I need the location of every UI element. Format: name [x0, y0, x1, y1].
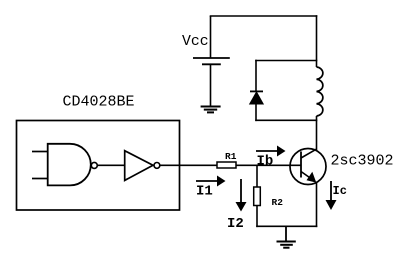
ground at battery — [201, 107, 221, 113]
IC block box CD4028BE — [17, 121, 180, 211]
ground at emitter — [277, 226, 296, 247]
wire parallel bottom rail — [255, 119, 317, 121]
svg-text:Ic: Ic — [333, 184, 347, 198]
transistor Q1 circle — [290, 149, 326, 185]
wire NAND to inverter — [97, 164, 124, 166]
svg-text:R2: R2 — [272, 197, 284, 208]
inductor L1 relay coil — [317, 67, 323, 116]
svg-text:Vcc: Vcc — [182, 34, 209, 50]
svg-text:Ib: Ib — [257, 153, 274, 169]
resistor R2 body — [254, 187, 261, 206]
transistor base bar — [300, 152, 302, 178]
battery V1 short plate — [202, 63, 221, 65]
wire diode branch upper — [255, 60, 257, 92]
inverter U1B triangle — [125, 151, 153, 181]
wire top rail — [210, 15, 318, 17]
wire battery to ground — [210, 64, 212, 106]
current arrow I2 — [236, 179, 247, 212]
resistor R1 body — [217, 162, 236, 168]
svg-text:I1: I1 — [196, 184, 213, 200]
current arrow Ic — [326, 181, 337, 210]
NAND gate output bubble — [91, 162, 97, 168]
svg-text:I2: I2 — [227, 216, 244, 232]
svg-text:R1: R1 — [225, 151, 237, 162]
diode D1 cathode bar — [250, 90, 263, 92]
battery V1 long plate — [193, 57, 230, 59]
wire diode branch lower — [255, 104, 257, 121]
transistor emitter stroke with arrow — [301, 172, 316, 183]
wire Vcc top — [210, 16, 212, 58]
transistor collector stroke — [301, 149, 316, 158]
svg-text:2sc3902: 2sc3902 — [331, 152, 394, 169]
wire top rail to coil — [316, 15, 318, 67]
wire collector up to coil/diode rail — [316, 121, 318, 151]
diode D1 triangle — [250, 92, 264, 104]
current arrow I1 — [196, 176, 226, 187]
NAND gate U1A body — [48, 144, 91, 186]
wire inverter output to R1 — [160, 164, 217, 166]
NAND gate input wire 1 — [32, 151, 48, 153]
inverter output bubble — [154, 163, 160, 169]
NAND gate input wire 2 — [32, 178, 48, 180]
wire emitter down to bottom rail — [316, 182, 318, 227]
wire R2 to bottom rail — [256, 206, 258, 228]
wire coil to bottom parallel rail — [316, 116, 318, 121]
wire branch node to R2 — [256, 165, 258, 187]
svg-text:CD4028BE: CD4028BE — [63, 94, 135, 111]
wire bottom rail — [256, 225, 317, 227]
wire parallel top rail — [255, 60, 317, 62]
wire R1 to transistor base — [236, 164, 301, 166]
current arrow Ib — [256, 146, 286, 157]
